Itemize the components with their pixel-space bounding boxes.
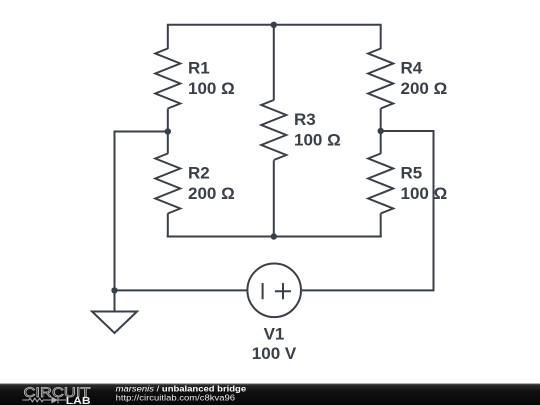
label R4 (401, 59, 448, 98)
wire R3 top stub (273, 25, 275, 100)
svg-text:100 V: 100 V (252, 344, 297, 363)
label R3 (294, 110, 341, 149)
svg-text:http://circuitlab.com/c8kva96: http://circuitlab.com/c8kva96 (116, 393, 236, 403)
node ground junction (111, 287, 117, 293)
label R2 (188, 164, 235, 203)
svg-text:R2: R2 (188, 164, 210, 183)
svg-text:100 Ω: 100 Ω (401, 184, 448, 203)
node right junction (378, 128, 384, 134)
resistor R4 (368, 49, 393, 109)
wire R2 bottom stub (167, 213, 169, 237)
wire R5 top stub (380, 131, 382, 154)
svg-text:R1: R1 (188, 59, 210, 78)
wire R3 bottom stub (273, 160, 275, 236)
wire R1 bottom stub (167, 109, 169, 133)
wire R5 bottom stub (380, 213, 382, 237)
wire R2 top stub (167, 132, 169, 154)
voltage source V1 (247, 264, 301, 318)
node bottom junction (271, 233, 277, 239)
label R5 (401, 164, 448, 203)
svg-text:200 Ω: 200 Ω (401, 79, 448, 98)
wire ground stub (114, 290, 116, 311)
svg-text:R4: R4 (401, 59, 423, 78)
svg-text:V1: V1 (264, 325, 285, 344)
wire R4 bottom stub (380, 109, 382, 133)
resistor R2 (155, 154, 180, 214)
node left junction (165, 128, 171, 134)
footer bar (0, 384, 540, 405)
resistor R5 (368, 154, 393, 214)
wire left loop (115, 132, 247, 291)
resistor R1 (155, 49, 180, 109)
logo mini resistor-diode symbol (23, 397, 67, 404)
ground (92, 312, 137, 334)
label R1 (188, 59, 235, 98)
resistor R3 (261, 100, 286, 160)
wire top rail (168, 25, 381, 49)
wire bottom rail (167, 236, 382, 238)
svg-text:LAB: LAB (66, 396, 91, 405)
svg-text:R3: R3 (294, 110, 316, 129)
svg-text:100 Ω: 100 Ω (188, 79, 235, 98)
node top junction (271, 22, 277, 28)
label V1 (252, 325, 297, 363)
svg-text:100 Ω: 100 Ω (294, 130, 341, 149)
svg-text:200 Ω: 200 Ω (188, 184, 235, 203)
svg-text:R5: R5 (401, 164, 423, 183)
wire right loop (302, 131, 434, 290)
